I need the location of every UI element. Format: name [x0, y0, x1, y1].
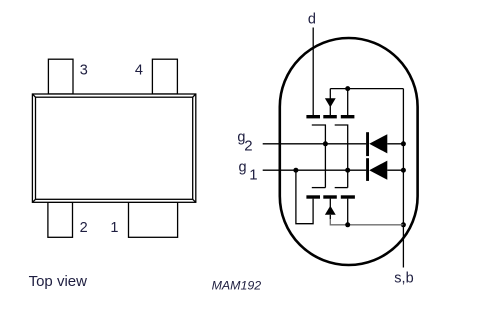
lower left gate electrode [312, 187, 326, 189]
g2 junction to gate lead [323, 141, 328, 146]
right source rail [402, 89, 404, 225]
svg-text:3: 3 [80, 63, 88, 79]
package body outer outline [32, 94, 195, 202]
pin 4 lead [152, 59, 177, 94]
lower right gate electrode [335, 187, 348, 189]
transistor envelope (oval outline) [280, 38, 418, 265]
lower bulk stub below arrow [329, 215, 331, 219]
pin 2 lead [48, 202, 73, 237]
body corner miter top-left [32, 94, 35, 97]
lower MOSFET channel bar (3 segments) [306, 195, 355, 198]
body corner miter top-right [193, 94, 196, 97]
junction D2/rail [401, 168, 406, 173]
junction lower source/bottom wire [345, 222, 350, 227]
g1 terminal wire [263, 169, 367, 171]
g1-to-source loop wire [296, 170, 313, 224]
g2 terminal wire [263, 143, 367, 145]
drain terminal wire [312, 28, 314, 116]
svg-text:MAM192: MAM192 [212, 279, 262, 293]
svg-text:d: d [308, 11, 316, 27]
pin 3 lead [48, 59, 73, 94]
body corner miter bottom-left [32, 199, 35, 202]
svg-text:2: 2 [80, 220, 88, 236]
top interconnect wire to right rail [330, 88, 403, 90]
lower source stub [347, 199, 349, 225]
upper right gate electrode with down lead [335, 125, 348, 188]
upper substrate stub with arrow (bulk diode) [329, 89, 331, 116]
protection diode D2 triangle [369, 161, 387, 180]
svg-text:1: 1 [249, 167, 257, 184]
s,b terminal wire [402, 225, 404, 268]
junction D1/rail [401, 141, 406, 146]
package body inner outline [36, 97, 193, 199]
svg-text:4: 4 [135, 62, 143, 78]
body corner miter bottom-right [193, 199, 196, 202]
protection diode D2 cathode bar [366, 158, 369, 181]
svg-text:2: 2 [244, 138, 252, 155]
protection diode D1 cathode bar [366, 132, 369, 156]
g1 junction to gate lead [345, 168, 350, 173]
lower substrate stub with arrow (bulk diode) [329, 199, 331, 207]
upper bulk arrowhead [325, 98, 336, 107]
upper gate bars g2/g1 [312, 125, 348, 188]
upper source stub [347, 89, 349, 116]
D2 anode wire [387, 169, 403, 171]
package top view (left figure) [32, 59, 195, 237]
junction top source/wire [345, 86, 350, 91]
svg-text:g: g [239, 160, 247, 176]
svg-text:s,b: s,b [394, 271, 413, 287]
g1 junction to source loop [293, 168, 298, 173]
D1 anode wire [387, 143, 403, 145]
svg-text:Top view: Top view [29, 273, 88, 290]
pin 1 lead [129, 202, 178, 237]
junction bottom wire/rail [401, 222, 406, 227]
protection diode D1 triangle [369, 134, 387, 153]
lower bulk arrowhead [325, 206, 336, 215]
lower bulk to bottom wire (grey) [330, 219, 403, 225]
upper left gate electrode with down lead [312, 125, 326, 188]
upper MOSFET channel bar (3 segments) [306, 115, 354, 118]
svg-text:1: 1 [110, 220, 118, 236]
